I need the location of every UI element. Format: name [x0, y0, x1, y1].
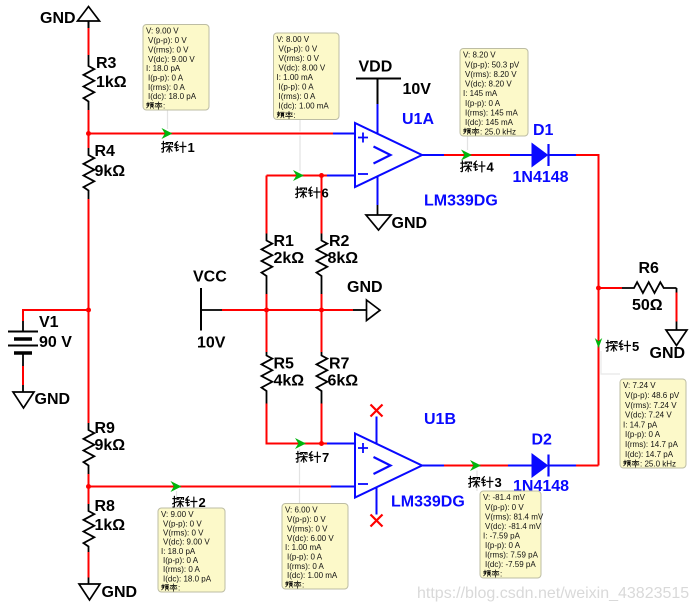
probe 7 arrow [295, 438, 306, 449]
svg-text:V(rms): 81.4 mV: V(rms): 81.4 mV [485, 512, 544, 521]
svg-text:R6: R6 [639, 260, 660, 277]
svg-text:V: -81.4 mV: V: -81.4 mV [483, 493, 526, 502]
probe 5 label [606, 339, 639, 354]
svg-text:I(rms): 14.7 pA: I(rms): 14.7 pA [625, 440, 679, 449]
svg-text:6: 6 [322, 186, 329, 201]
resistor R4 9kOhm [84, 134, 126, 200]
probe 4 label [461, 160, 495, 175]
wire probe7 node to U1B plus input [327, 443, 355, 445]
op-amp U1B LM339DG [355, 411, 465, 511]
probe 5 arrow (down) [595, 338, 602, 348]
svg-text:I(rms): 0 A: I(rms): 0 A [279, 92, 317, 101]
wire V1 to GND2 [22, 366, 24, 385]
svg-text:GND: GND [35, 391, 71, 408]
svg-text:R5: R5 [274, 356, 295, 373]
svg-text::: : [302, 581, 304, 590]
probe6 measurement box [274, 33, 340, 120]
svg-text:7: 7 [322, 450, 329, 465]
power VDD 10V pin U1A [356, 59, 431, 135]
wire R4 to node2 [88, 199, 90, 310]
svg-text:I(rms): 7.59 pA: I(rms): 7.59 pA [485, 551, 539, 560]
probe2 measurement box [158, 508, 225, 593]
svg-text:https://blog.csdn.net/weixin_4: https://blog.csdn.net/weixin_43823515 [417, 585, 689, 602]
wire right rail down [598, 288, 600, 466]
svg-text:R9: R9 [95, 420, 116, 437]
svg-text:R1: R1 [274, 233, 295, 250]
svg-text::: : [500, 570, 502, 579]
svg-text:VDD: VDD [359, 59, 393, 76]
svg-text:D2: D2 [532, 432, 553, 449]
svg-text:U1A: U1A [402, 111, 434, 128]
node junction R2 bottom [319, 308, 324, 313]
resistor R6 50Ohm [599, 260, 677, 314]
svg-text:V(dc): 9.00 V: V(dc): 9.00 V [163, 538, 210, 547]
svg-text:5: 5 [632, 339, 639, 354]
svg-text:I: 1.00 mA: I: 1.00 mA [285, 543, 322, 552]
wire node3 to U1B minus input [89, 486, 332, 488]
svg-text:1: 1 [188, 140, 195, 155]
svg-text:I(dc): -7.59 pA: I(dc): -7.59 pA [485, 560, 536, 569]
svg-text:1kΩ: 1kΩ [96, 74, 127, 91]
node junction probe6 [319, 173, 324, 178]
svg-text:I(p-p): 0 A: I(p-p): 0 A [625, 430, 661, 439]
wire VCC rail [201, 309, 222, 311]
probe5 measurement box [620, 379, 686, 469]
wire probe6 node to U1A minus input [267, 175, 328, 177]
probe1 measurement box [143, 25, 209, 111]
probe 7 leader line [299, 449, 301, 504]
resistor R9 9kOhm [84, 310, 126, 474]
node junction probe7 [319, 441, 324, 446]
svg-text:I(dc): 14.7 pA: I(dc): 14.7 pA [625, 450, 674, 459]
probe3 measurement box [480, 491, 544, 579]
wire R6 to GND right [676, 288, 678, 293]
resistor R5 4kOhm [262, 310, 305, 404]
wire R2 to VCC rail [321, 294, 323, 310]
svg-text:V(p-p): 0 V: V(p-p): 0 V [287, 515, 326, 524]
resistor R8 1kOhm [84, 487, 126, 553]
svg-text:3: 3 [495, 475, 502, 490]
svg-text:4: 4 [487, 160, 495, 175]
svg-text::: : [294, 111, 296, 120]
ground GND under V1 [13, 391, 70, 408]
svg-text:V(rms): 7.24 V: V(rms): 7.24 V [625, 401, 677, 410]
diode D1 1N4148 [510, 122, 576, 186]
svg-text:V(dc): 9.00 V: V(dc): 9.00 V [148, 55, 195, 64]
node junction 1 [86, 131, 91, 136]
node junction 3 [86, 484, 91, 489]
probe7 measurement box [282, 504, 348, 590]
svg-text:GND: GND [650, 345, 686, 362]
svg-text:R3: R3 [96, 55, 117, 72]
U1B power pin stub with X [371, 405, 383, 445]
ground GND pin U1A [366, 176, 427, 232]
wire U1B output [422, 465, 444, 467]
svg-text:GND: GND [102, 584, 138, 601]
svg-text:8kΩ: 8kΩ [328, 250, 359, 267]
svg-text:VCC: VCC [193, 269, 227, 286]
svg-text:I(p-p): 0 A: I(p-p): 0 A [287, 553, 323, 562]
svg-text:90 V: 90 V [39, 334, 72, 351]
svg-text:LM339DG: LM339DG [424, 193, 498, 210]
svg-text:I: 145 mA: I: 145 mA [463, 89, 498, 98]
svg-text:D1: D1 [533, 122, 554, 139]
ground GND bottom-left [79, 584, 137, 601]
diode D2 1N4148 [508, 432, 576, 496]
svg-text:R4: R4 [95, 143, 116, 160]
ground GND right of R6 [650, 330, 688, 362]
svg-text:V: 8.20 V: V: 8.20 V [463, 51, 496, 60]
svg-text:V(p-p): 0 V: V(p-p): 0 V [148, 36, 187, 45]
svg-text:50Ω: 50Ω [632, 297, 663, 314]
probe 6 arrow [293, 170, 304, 181]
wire U1A output [422, 154, 444, 156]
power VCC 10V [193, 269, 227, 352]
svg-text:I(p-p): 0 A: I(p-p): 0 A [148, 74, 184, 83]
svg-text:V1: V1 [39, 314, 59, 331]
ground GND top-left [40, 7, 100, 29]
probe 2 leader line [176, 491, 178, 508]
probe 7 label [296, 450, 329, 465]
wire R8 to GND3 [88, 552, 90, 578]
probe 3 label [469, 475, 502, 490]
battery V1 90V [8, 314, 72, 366]
probe 1 arrow [162, 128, 173, 139]
svg-text:9kΩ: 9kΩ [95, 163, 126, 180]
svg-text:I(dc): 1.00 mA: I(dc): 1.00 mA [279, 102, 330, 111]
probe 4 arrow [461, 150, 472, 161]
svg-text:1N4148: 1N4148 [513, 169, 569, 186]
svg-text:R7: R7 [329, 356, 350, 373]
probe 2 label [173, 495, 206, 510]
svg-text::: : [163, 102, 165, 111]
svg-text:V(dc): 8.20 V: V(dc): 8.20 V [465, 80, 512, 89]
svg-text:I(rms): 0 A: I(rms): 0 A [148, 83, 186, 92]
resistor R2 8kOhm [317, 176, 359, 295]
wire R3 to node1 [88, 110, 90, 134]
svg-text:V: 6.00 V: V: 6.00 V [285, 506, 318, 515]
svg-text:I(p-p): 0 A: I(p-p): 0 A [485, 541, 521, 550]
svg-text:V(p-p): 48.6 pV: V(p-p): 48.6 pV [625, 391, 680, 400]
svg-text:I(rms): 0 A: I(rms): 0 A [287, 562, 325, 571]
svg-text:I(dc): 18.0 pA: I(dc): 18.0 pA [163, 574, 212, 583]
svg-text:I(dc): 145 mA: I(dc): 145 mA [465, 118, 514, 127]
svg-text:V(p-p): 0 V: V(p-p): 0 V [279, 45, 318, 54]
node junction 2 [86, 308, 91, 313]
probe 6 leader line [299, 120, 301, 172]
probe 3 arrow [470, 460, 481, 471]
svg-text:V(rms): 0 V: V(rms): 0 V [287, 524, 328, 533]
wire D1 to right rail [576, 155, 599, 288]
svg-text:10V: 10V [197, 335, 226, 352]
probe 3 leader line [476, 471, 478, 492]
svg-text:I: 14.7 pA: I: 14.7 pA [623, 420, 658, 429]
probe 1 label [162, 140, 195, 155]
svg-text:I: 18.0 pA: I: 18.0 pA [146, 64, 181, 73]
svg-text:V(rms): 8.20 V: V(rms): 8.20 V [465, 70, 517, 79]
svg-text:6kΩ: 6kΩ [328, 373, 359, 390]
svg-text:V(dc): 8.00 V: V(dc): 8.00 V [279, 64, 326, 73]
svg-text:GND: GND [347, 279, 383, 296]
svg-text:I(p-p): 0 A: I(p-p): 0 A [465, 99, 501, 108]
svg-text:GND: GND [392, 215, 428, 232]
svg-text:I: -7.59 pA: I: -7.59 pA [483, 531, 521, 540]
svg-text:V(dc): 6.00 V: V(dc): 6.00 V [287, 534, 334, 543]
wire GND1 to R3 [88, 28, 90, 55]
probe4 measurement box [460, 49, 528, 137]
wire D2 to right rail [576, 465, 599, 467]
wire R7 to probe7 rail [321, 404, 323, 444]
resistor R3 1kOhm [84, 55, 127, 110]
svg-text:I(rms): 145 mA: I(rms): 145 mA [465, 108, 519, 117]
probe 1 leader line [167, 110, 169, 129]
svg-text:V(rms): 0 V: V(rms): 0 V [148, 45, 189, 54]
svg-text:I(p-p): 0 A: I(p-p): 0 A [279, 83, 315, 92]
probe 6 label [296, 186, 329, 201]
svg-text:V: 8.00 V: V: 8.00 V [277, 35, 310, 44]
probe 2 arrow [171, 481, 182, 492]
svg-text:GND: GND [40, 10, 76, 27]
svg-text:V(rms): 0 V: V(rms): 0 V [279, 54, 320, 63]
resistor R1 2kOhm [262, 176, 305, 295]
svg-text:V(p-p): 0 V: V(p-p): 0 V [485, 503, 524, 512]
wire R9 to node3 [88, 474, 90, 487]
wire R1 to VCC rail [266, 294, 268, 310]
wire node1 to U1A plus input [89, 133, 334, 135]
U1B ground pin stub with X [371, 488, 383, 527]
svg-text:: 25.0 kHz: : 25.0 kHz [480, 128, 516, 137]
svg-text:I(rms): 0 A: I(rms): 0 A [163, 565, 201, 574]
svg-text:9kΩ: 9kΩ [95, 437, 126, 454]
svg-text:1kΩ: 1kΩ [95, 517, 126, 534]
op-amp U1A LM339DG [355, 111, 498, 210]
svg-text:10V: 10V [403, 81, 432, 98]
svg-text:V(rms): 0 V: V(rms): 0 V [163, 529, 204, 538]
svg-text:I: 1.00 mA: I: 1.00 mA [277, 73, 314, 82]
svg-text:R8: R8 [95, 498, 116, 515]
svg-text:LM339DG: LM339DG [391, 494, 465, 511]
svg-text:I(dc): 1.00 mA: I(dc): 1.00 mA [287, 571, 338, 580]
ground GND right-arrow mid [347, 279, 383, 321]
svg-text:I: 18.0 pA: I: 18.0 pA [161, 547, 196, 556]
wire node2 to V1 [23, 310, 89, 321]
resistor R7 6kOhm [317, 310, 359, 404]
svg-text:V(p-p): 0 V: V(p-p): 0 V [163, 519, 202, 528]
svg-text:: 25.0 kHz: : 25.0 kHz [640, 460, 676, 469]
svg-text:2kΩ: 2kΩ [274, 250, 305, 267]
svg-text:V: 9.00 V: V: 9.00 V [146, 27, 179, 36]
probe 4 leader line [467, 136, 469, 150]
svg-text:V(dc): -81.4 mV: V(dc): -81.4 mV [485, 522, 542, 531]
svg-text:V(p-p): 50.3 pV: V(p-p): 50.3 pV [465, 60, 520, 69]
svg-text:V: 7.24 V: V: 7.24 V [623, 381, 656, 390]
svg-text::: : [178, 584, 180, 593]
svg-text:I(dc): 18.0 pA: I(dc): 18.0 pA [148, 92, 197, 101]
svg-text:V: 9.00 V: V: 9.00 V [161, 510, 194, 519]
svg-text:I(p-p): 0 A: I(p-p): 0 A [163, 556, 199, 565]
probe 5 leader line [601, 351, 620, 374]
svg-text:U1B: U1B [424, 411, 456, 428]
wire R5 to probe7 rail [267, 404, 328, 444]
node junction R1 bottom [264, 308, 269, 313]
svg-text:R2: R2 [329, 233, 350, 250]
svg-text:V(dc): 7.24 V: V(dc): 7.24 V [625, 411, 672, 420]
svg-text:4kΩ: 4kΩ [274, 373, 305, 390]
node junction R6 [596, 286, 601, 291]
